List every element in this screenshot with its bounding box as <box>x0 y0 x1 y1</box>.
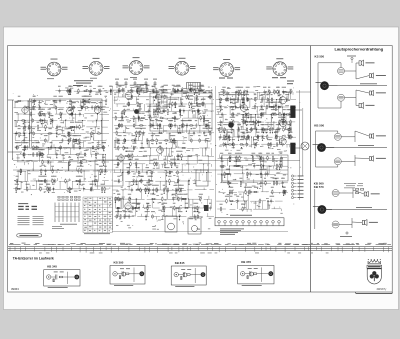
capacitor <box>280 156 282 158</box>
bus text row <box>43 243 50 246</box>
wire stub <box>69 178 71 181</box>
capacitor <box>23 138 25 140</box>
svg-text:39063: 39063 <box>11 287 19 291</box>
resistor <box>268 106 269 108</box>
resistor <box>199 90 200 92</box>
wire stub <box>202 97 204 101</box>
wire stub <box>52 167 54 171</box>
wire <box>51 121 53 128</box>
potentiometer <box>283 190 285 195</box>
wire <box>69 133 79 135</box>
wire <box>175 141 177 149</box>
wire <box>282 107 284 115</box>
wire <box>176 126 178 134</box>
wire <box>217 173 231 175</box>
tube ECC85 lead right <box>61 67 62 69</box>
coil <box>278 90 279 91</box>
bus tap tick <box>93 247 95 253</box>
wire <box>87 107 102 109</box>
wire <box>58 161 68 163</box>
resistor <box>197 214 199 215</box>
bus tap tick <box>118 247 120 252</box>
wire <box>192 199 194 208</box>
speaker label <box>369 221 378 224</box>
resistor <box>267 155 269 156</box>
resistor <box>273 89 275 90</box>
wire <box>155 96 162 98</box>
wire <box>157 89 163 91</box>
bus tap tick <box>294 247 296 251</box>
wire <box>283 173 288 175</box>
wire <box>283 182 288 184</box>
wire <box>153 207 160 209</box>
bus label <box>155 243 157 246</box>
wire <box>267 201 269 209</box>
wire <box>237 157 242 159</box>
resistor <box>226 173 227 175</box>
wire <box>285 122 287 130</box>
wire <box>237 201 239 209</box>
wire stub <box>205 111 207 113</box>
wire <box>100 121 102 128</box>
wire stub <box>39 186 41 189</box>
capacitor <box>159 146 161 148</box>
maker logo crest <box>367 259 382 284</box>
wire <box>239 200 247 202</box>
wire <box>162 147 176 149</box>
wire <box>137 181 139 190</box>
potentiometer <box>179 109 181 114</box>
wire <box>175 89 188 91</box>
bus tap tick <box>71 247 73 251</box>
resistor <box>181 147 182 149</box>
wire stub <box>146 204 148 208</box>
resistor <box>271 189 273 190</box>
wire <box>226 158 228 166</box>
wire <box>149 90 160 92</box>
capacitor <box>48 187 50 189</box>
wire <box>146 103 162 105</box>
wire <box>181 90 183 97</box>
capacitor <box>23 131 25 133</box>
bus label <box>150 242 154 245</box>
resistor <box>40 154 41 156</box>
wire <box>246 137 248 145</box>
middle junction line <box>326 85 387 87</box>
resistor <box>55 105 57 106</box>
potentiometer <box>246 172 248 177</box>
wire <box>68 162 70 171</box>
wire <box>267 136 272 138</box>
wire <box>59 148 61 155</box>
wire <box>74 90 88 92</box>
wire <box>162 117 173 119</box>
tube EM84 lead right <box>189 67 190 69</box>
resistor <box>252 155 254 156</box>
resistor <box>282 91 283 93</box>
resistor <box>116 207 117 209</box>
wire stub <box>28 127 30 130</box>
bus tap tick <box>207 247 209 251</box>
wire <box>52 140 63 142</box>
diode <box>189 88 191 93</box>
resistor <box>270 106 271 108</box>
shield box outline <box>150 93 212 131</box>
wire <box>267 201 269 209</box>
coil <box>48 160 49 161</box>
wire <box>23 113 35 115</box>
tube EF89 lead right <box>143 66 144 68</box>
resistor <box>124 147 125 149</box>
wire <box>124 126 126 134</box>
wire <box>182 198 187 200</box>
bus label <box>252 242 256 245</box>
wire <box>115 198 130 200</box>
wire <box>187 181 189 190</box>
wire stub <box>101 118 103 121</box>
resistor <box>238 155 240 156</box>
resistor <box>163 205 165 206</box>
wire <box>114 139 129 141</box>
resistor <box>84 107 85 109</box>
diode <box>118 138 120 143</box>
wire <box>163 198 178 200</box>
wire <box>200 117 211 119</box>
wire stub <box>32 168 34 171</box>
resistor <box>124 138 126 139</box>
wire <box>135 133 137 141</box>
coil <box>23 153 24 154</box>
wire <box>242 115 244 123</box>
wire <box>216 200 226 202</box>
wire <box>102 155 104 163</box>
bus text row <box>303 243 311 246</box>
wire <box>234 136 249 138</box>
wire <box>138 89 149 91</box>
wire <box>13 132 20 134</box>
wire stub <box>201 196 203 199</box>
wire stub <box>245 201 247 204</box>
wire <box>229 191 237 193</box>
wire <box>23 108 25 115</box>
wire <box>84 113 96 115</box>
wire <box>114 125 122 127</box>
capacitor <box>67 131 69 133</box>
coil <box>135 139 136 140</box>
wire <box>102 126 108 128</box>
power rail <box>13 169 288 171</box>
wire stub <box>146 164 148 166</box>
resistor <box>39 111 41 112</box>
coil <box>124 215 125 216</box>
wire <box>237 130 239 138</box>
wire <box>47 107 54 109</box>
section boundary wire <box>112 86 114 230</box>
diode <box>53 187 55 192</box>
resistor <box>148 180 149 182</box>
capacitor <box>90 89 92 91</box>
wire <box>166 96 179 98</box>
trimmer symbol <box>134 81 136 88</box>
resistor <box>272 155 274 156</box>
resistor <box>218 127 220 128</box>
bus tap tick <box>235 247 237 251</box>
wire <box>87 132 101 134</box>
wire <box>163 126 165 134</box>
resistor <box>83 90 84 92</box>
wire <box>79 170 90 172</box>
potentiometer <box>114 197 116 202</box>
resistor <box>169 123 171 124</box>
wire stub <box>246 183 248 186</box>
resistor <box>149 125 150 127</box>
bus label <box>199 242 202 245</box>
output transformer T1 <box>290 106 295 118</box>
wire <box>204 148 206 156</box>
matching transformer <box>338 94 345 101</box>
wire <box>148 132 163 134</box>
wire <box>168 148 170 156</box>
bus label below <box>90 252 95 255</box>
wire <box>46 146 62 148</box>
wire <box>247 191 259 193</box>
wire <box>253 137 255 145</box>
tube socket ECC85 (base view) <box>47 62 61 76</box>
resistor <box>154 161 156 162</box>
resistor <box>191 87 193 88</box>
wire <box>132 155 144 157</box>
legend heading <box>18 202 28 205</box>
capacitor <box>66 89 68 91</box>
capacitor <box>44 118 46 120</box>
resistor <box>171 117 172 119</box>
capacitor <box>200 88 202 90</box>
wire <box>169 133 171 141</box>
electrodynamic speaker (magnet) <box>320 81 329 90</box>
capacitor <box>69 89 71 91</box>
wire <box>48 134 50 141</box>
transistor <box>183 273 187 277</box>
wire <box>253 136 267 138</box>
capacitor <box>221 112 223 114</box>
wire <box>50 162 52 171</box>
capacitor <box>256 135 258 137</box>
wire stub <box>284 192 286 195</box>
wire <box>220 129 235 131</box>
wire <box>122 125 135 127</box>
resistor <box>135 189 136 191</box>
wire stub <box>286 145 288 148</box>
svg-text:KB 395: KB 395 <box>114 260 124 264</box>
resistor <box>97 145 99 146</box>
resistor <box>196 103 197 105</box>
tube socket ELL80 (base view) <box>273 62 287 76</box>
wire <box>184 199 186 208</box>
wire <box>77 155 79 163</box>
resistor <box>128 153 130 154</box>
resistor <box>96 133 97 135</box>
resistor <box>44 138 46 139</box>
note text line3 <box>73 84 83 87</box>
transistor <box>250 272 254 276</box>
bus text row <box>387 243 391 246</box>
bus tap tick <box>321 247 323 252</box>
bus tap tick <box>352 247 354 252</box>
equalizer unit KB 376 box <box>238 265 274 284</box>
resistor <box>209 130 211 131</box>
wire <box>82 101 84 108</box>
output plug <box>74 275 79 280</box>
wire <box>234 92 236 100</box>
wire <box>65 170 78 172</box>
bus label <box>302 243 308 246</box>
equalizer unit KB 845 box <box>171 266 206 285</box>
bus tap tick <box>19 247 21 253</box>
B+ rail vertical <box>302 108 304 176</box>
resistor <box>167 187 169 188</box>
tube socket ECH81 (base view) <box>89 61 103 75</box>
capacitor <box>152 188 154 190</box>
wire <box>296 91 311 93</box>
resistor <box>162 205 164 206</box>
coil <box>131 95 132 96</box>
wire <box>87 120 102 122</box>
wire stub <box>84 108 86 111</box>
wire <box>72 141 74 148</box>
wire <box>269 106 276 108</box>
wire <box>247 91 254 93</box>
wire <box>179 124 185 126</box>
caption <box>175 285 194 288</box>
wire <box>171 104 173 111</box>
electrolytic can <box>228 122 234 128</box>
capacitor <box>59 99 61 101</box>
wire <box>230 200 236 202</box>
wire <box>202 118 204 126</box>
resistor <box>16 178 18 179</box>
trimmer symbol <box>154 81 156 88</box>
wire <box>39 155 41 163</box>
resistor <box>155 94 157 95</box>
potentiometer <box>288 135 290 140</box>
wire <box>172 216 186 218</box>
wire <box>272 208 282 210</box>
wire <box>264 114 275 116</box>
bus tap tick <box>265 247 267 251</box>
capacitor <box>228 135 230 137</box>
coil <box>243 98 244 99</box>
resistor <box>116 214 118 215</box>
resistor <box>238 89 240 90</box>
resistor <box>228 180 230 181</box>
bus tap tick <box>25 247 27 252</box>
diode <box>246 90 248 95</box>
crossover network text <box>344 182 356 185</box>
wire stub <box>93 138 95 141</box>
coil <box>276 143 277 144</box>
resistor <box>139 125 140 127</box>
resistor <box>82 98 84 99</box>
resistor <box>171 123 173 124</box>
wire stub <box>104 181 106 184</box>
resistor network stack <box>58 196 60 198</box>
capacitor <box>39 118 41 120</box>
resistor <box>276 180 278 181</box>
wire <box>195 207 210 209</box>
wire <box>161 163 168 165</box>
resistor <box>137 87 139 88</box>
capacitor <box>198 109 200 111</box>
tube socket EF89 (base view) <box>129 61 143 75</box>
svg-text:KB 500: KB 500 <box>314 123 324 127</box>
speaker label <box>371 192 380 195</box>
wire <box>45 100 51 102</box>
wire <box>181 126 183 134</box>
svg-text:34453 Hy: 34453 Hy <box>377 289 388 291</box>
bus tap tick <box>388 247 390 253</box>
resistor <box>39 120 40 122</box>
resistor <box>253 273 256 275</box>
wire stub <box>239 122 241 126</box>
wire <box>256 92 258 100</box>
wire <box>147 155 160 157</box>
wire <box>219 100 221 108</box>
wire <box>269 143 275 145</box>
bus text row <box>107 243 111 246</box>
wire <box>27 101 29 108</box>
resistor <box>169 178 171 179</box>
note Ortsbedienung text line1 <box>74 79 93 82</box>
wire stub <box>273 207 275 209</box>
tube ECC85 lead left <box>46 67 47 69</box>
wire stub <box>248 137 250 141</box>
wire <box>14 146 19 148</box>
resistor <box>257 121 258 123</box>
wire stub <box>34 178 36 181</box>
resistor <box>95 152 97 153</box>
component labels <box>120 267 124 270</box>
capacitor <box>39 105 41 107</box>
wire stub <box>131 153 133 157</box>
bus tap tick <box>110 247 112 253</box>
capacitor <box>236 90 238 92</box>
capacitor <box>282 181 284 183</box>
capacitor <box>261 127 263 129</box>
capacitor <box>73 105 75 107</box>
wire <box>260 200 266 202</box>
bus text row <box>66 243 70 246</box>
wire <box>14 121 16 128</box>
wire <box>63 276 68 278</box>
wire <box>276 99 291 101</box>
bus tap tick <box>157 247 159 253</box>
resistor <box>275 104 277 105</box>
resistor <box>229 200 230 202</box>
wire <box>278 107 280 115</box>
coil <box>79 179 80 180</box>
resistor <box>269 127 271 128</box>
resistor <box>140 117 141 119</box>
resistor <box>209 94 211 95</box>
bus text row <box>232 243 238 246</box>
wire <box>176 155 192 157</box>
wire <box>15 140 20 142</box>
wire <box>166 148 168 156</box>
wire stub <box>75 121 77 123</box>
bus text row <box>245 243 252 246</box>
wire stub <box>204 104 206 108</box>
wire <box>68 276 75 278</box>
